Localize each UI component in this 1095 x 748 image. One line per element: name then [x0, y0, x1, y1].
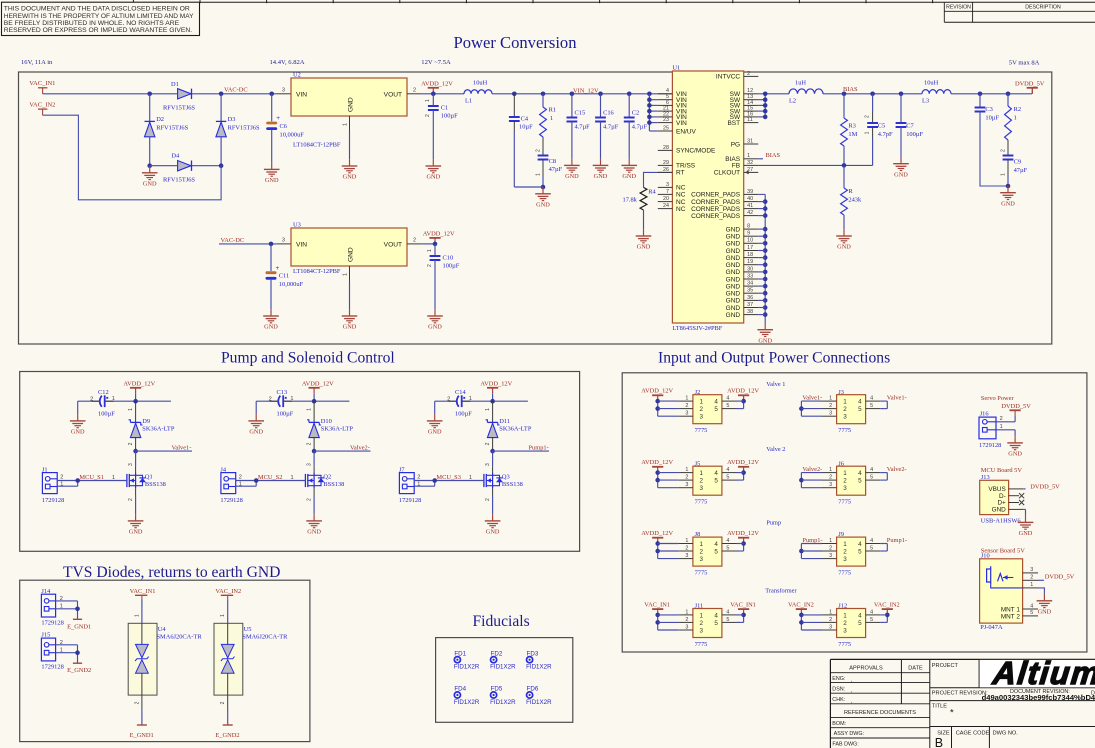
- svg-text:PROJECT REVISION:: PROJECT REVISION:: [932, 691, 988, 697]
- svg-text:L1: L1: [465, 98, 472, 105]
- wire source Q2: [307, 488, 315, 514]
- capacitor C13 polarized: [269, 389, 294, 418]
- svg-text:GND: GND: [343, 174, 357, 181]
- svg-text:J1: J1: [42, 466, 48, 473]
- svg-text:10: 10: [747, 238, 753, 244]
- svg-text:4.7µF: 4.7µF: [603, 123, 619, 130]
- svg-text:100µF: 100µF: [455, 411, 472, 418]
- svg-text:GND: GND: [565, 173, 579, 180]
- svg-text:2: 2: [700, 548, 704, 555]
- svg-text:DVDD_5V: DVDD_5V: [1030, 483, 1060, 490]
- svg-text:GND: GND: [726, 269, 741, 276]
- svg-text:U2: U2: [293, 72, 301, 79]
- svg-text:J5: J5: [695, 460, 701, 467]
- svg-text:3: 3: [1030, 567, 1033, 573]
- svg-text:39: 39: [747, 189, 753, 195]
- svg-text:TITLE: TITLE: [932, 703, 947, 709]
- svg-text:J16: J16: [980, 411, 989, 418]
- svg-text:J3: J3: [838, 389, 844, 396]
- svg-text:1: 1: [700, 399, 704, 406]
- svg-text:BSS138: BSS138: [323, 481, 344, 488]
- svg-text:41: 41: [747, 203, 753, 209]
- svg-text:RFV15TJ6S: RFV15TJ6S: [156, 125, 188, 132]
- tvs section box: [20, 580, 310, 741]
- svg-text:AVDD_12V: AVDD_12V: [727, 530, 759, 537]
- ground Q3: [485, 514, 501, 535]
- node C1 tap: [431, 92, 436, 97]
- svg-text:1729128: 1729128: [41, 620, 63, 627]
- svg-text:4: 4: [870, 396, 873, 402]
- svg-text:3: 3: [700, 414, 704, 421]
- label Sensor Board 5V: [981, 548, 1025, 555]
- svg-text:4: 4: [858, 612, 862, 619]
- connector J14: [41, 588, 63, 627]
- svg-text:2: 2: [128, 498, 134, 501]
- label MCU Board 5V: [981, 467, 1023, 474]
- svg-text:Valve 1: Valve 1: [766, 381, 785, 388]
- ground C9: [1000, 186, 1016, 207]
- svg-text:ENG:: ENG:: [832, 676, 845, 682]
- power AVDD_12V Q1 stage: [123, 381, 155, 402]
- inductor L2: [789, 79, 823, 104]
- wire gnd drop C12: [77, 401, 79, 414]
- svg-text:33: 33: [747, 273, 753, 279]
- svg-text:BSS138: BSS138: [145, 481, 166, 488]
- node C11: [269, 242, 274, 247]
- svg-text:29: 29: [663, 160, 669, 166]
- node BIAS: [842, 86, 858, 96]
- group label Valve 1: [766, 381, 785, 388]
- svg-text:7775: 7775: [838, 641, 851, 648]
- power AVDD_12V u3: [423, 231, 455, 247]
- svg-text:TVS Diodes, returns to earth G: TVS Diodes, returns to earth GND: [63, 564, 280, 581]
- svg-text:4: 4: [858, 399, 862, 406]
- svg-text:CLKOUT: CLKOUT: [714, 170, 740, 177]
- power AVDD_12V Q2 stage: [302, 381, 334, 402]
- svg-text:1: 1: [291, 475, 294, 481]
- svg-text:1uH: 1uH: [795, 79, 806, 86]
- svg-text:1: 1: [700, 541, 704, 548]
- svg-text:GND: GND: [726, 276, 741, 283]
- svg-text:3: 3: [685, 553, 688, 559]
- svg-text:1: 1: [843, 399, 847, 406]
- svg-text:FID1X2R: FID1X2R: [526, 664, 552, 671]
- svg-text:Valve2-: Valve2-: [887, 466, 907, 473]
- svg-text:RT: RT: [676, 170, 685, 177]
- wire L2 to L3: [823, 93, 922, 95]
- svg-text:47µF: 47µF: [549, 166, 563, 173]
- wire D1 to U2: [192, 93, 291, 95]
- svg-text:1: 1: [685, 609, 688, 615]
- wire D4 leads: [150, 165, 221, 167]
- svg-text:VOUT: VOUT: [384, 241, 402, 248]
- net label VIN_12V: [573, 88, 599, 95]
- ground J16: [1007, 436, 1023, 457]
- resistor R3: [841, 94, 858, 166]
- svg-text:3: 3: [685, 411, 688, 417]
- svg-text:D1: D1: [171, 81, 179, 88]
- wire J14 tie: [56, 601, 80, 619]
- svg-text:2: 2: [425, 114, 431, 117]
- diode D11 schottky: [485, 401, 532, 451]
- disclaimer text box: [2, 2, 200, 35]
- svg-text:INTVCC: INTVCC: [716, 74, 741, 81]
- ground C6: [264, 163, 280, 184]
- capacitor C3: [975, 94, 1008, 186]
- svg-text:17.8k: 17.8k: [623, 197, 638, 204]
- svg-text:C16: C16: [603, 109, 614, 116]
- svg-text:31: 31: [747, 138, 753, 144]
- svg-text:AVDD_12V: AVDD_12V: [423, 231, 455, 238]
- port VAC_IN1 tvs: [130, 588, 156, 600]
- svg-text:D11: D11: [499, 418, 510, 425]
- node C9 gnd: [1006, 184, 1011, 189]
- svg-text:VAC-DC: VAC-DC: [224, 87, 248, 94]
- svg-text:GND: GND: [726, 241, 741, 248]
- capacitor C1: [425, 94, 458, 160]
- svg-text:FID1X2R: FID1X2R: [454, 664, 480, 671]
- svg-text:2: 2: [843, 406, 847, 413]
- svg-text:C15: C15: [575, 109, 586, 116]
- svg-text:D4: D4: [171, 152, 180, 159]
- svg-text:DSN:: DSN:: [832, 686, 845, 692]
- earth E_GND1 port: [67, 619, 91, 630]
- svg-text:5: 5: [714, 620, 718, 627]
- svg-text:MCU_S1: MCU_S1: [79, 474, 104, 481]
- svg-text:4: 4: [714, 470, 718, 477]
- svg-text:MCU_S3: MCU_S3: [436, 474, 461, 481]
- svg-text:E_GND1: E_GND1: [130, 732, 154, 739]
- svg-text:5: 5: [726, 617, 729, 623]
- svg-text:*: *: [950, 707, 954, 718]
- inductor L1: [464, 79, 492, 104]
- svg-text:L3: L3: [922, 98, 929, 105]
- svg-text:J11: J11: [695, 603, 704, 610]
- wire source Q3: [485, 488, 493, 514]
- ground C12: [70, 414, 86, 435]
- annotation 12V 7.5A: [421, 59, 451, 66]
- wire gate Q3: [414, 474, 484, 486]
- svg-text:5: 5: [858, 548, 862, 555]
- svg-text:VAC_IN1: VAC_IN1: [644, 602, 670, 609]
- diode D1: [163, 81, 195, 112]
- svg-text:L2: L2: [789, 98, 796, 105]
- svg-text:APPROVALS: APPROVALS: [849, 666, 883, 672]
- svg-text:MNT 2: MNT 2: [1001, 613, 1021, 620]
- svg-text:C1: C1: [441, 104, 448, 111]
- svg-text:GND: GND: [348, 247, 355, 262]
- svg-text:LT1084CT-12PBF: LT1084CT-12PBF: [293, 142, 341, 149]
- svg-text:1729128: 1729128: [220, 497, 242, 504]
- ground C8: [535, 187, 551, 208]
- svg-text:D3: D3: [228, 116, 236, 123]
- svg-text:VAC_IN1: VAC_IN1: [130, 588, 156, 595]
- svg-text:1: 1: [1014, 115, 1017, 122]
- regulator U2 LT1084: [282, 72, 416, 149]
- svg-text:Valve1-: Valve1-: [172, 444, 192, 451]
- svg-text:1: 1: [685, 467, 688, 473]
- svg-text:Q3: Q3: [502, 473, 510, 480]
- svg-text:VAC_IN2: VAC_IN2: [29, 102, 55, 109]
- svg-text:BST: BST: [727, 120, 740, 127]
- wire 12V rail Q3: [435, 399, 528, 404]
- svg-text:VAC_IN1: VAC_IN1: [730, 602, 756, 609]
- svg-text:C5: C5: [878, 123, 885, 130]
- power AVDD_12V u2: [421, 81, 453, 94]
- ground Q1: [128, 514, 144, 535]
- annotation 16V 11A in: [21, 59, 53, 66]
- svg-text:CHK:: CHK:: [832, 697, 845, 703]
- wire J10 gnd: [1038, 588, 1044, 594]
- fiducial FD5: [490, 686, 516, 706]
- svg-text:3: 3: [282, 87, 285, 93]
- svg-text:2: 2: [843, 620, 847, 627]
- ground C13: [248, 414, 264, 435]
- svg-text:1: 1: [485, 408, 491, 411]
- svg-text:Power Conversion: Power Conversion: [453, 33, 577, 52]
- net label BIAS pin: [758, 152, 780, 159]
- ground R 243k: [836, 229, 852, 250]
- svg-text:Valve 2: Valve 2: [766, 446, 785, 453]
- svg-text:20: 20: [663, 196, 669, 202]
- connector J6: [799, 460, 907, 505]
- svg-text:5: 5: [870, 617, 873, 623]
- ground U2: [342, 159, 358, 180]
- svg-text:GND: GND: [837, 244, 851, 251]
- svg-text:VIN: VIN: [676, 120, 687, 127]
- svg-text:C14: C14: [455, 389, 466, 396]
- section title IO Connections: [658, 349, 890, 366]
- svg-text:10µF: 10µF: [519, 124, 533, 131]
- resistor R4 17.8k: [623, 172, 673, 229]
- svg-text:J15: J15: [41, 632, 50, 639]
- svg-text:Valve1-: Valve1-: [802, 394, 822, 401]
- svg-text:2: 2: [829, 545, 832, 551]
- connector J11: [644, 602, 756, 648]
- svg-text:1: 1: [843, 541, 847, 548]
- svg-text:+: +: [276, 265, 280, 272]
- svg-text:4.7pF: 4.7pF: [878, 131, 893, 138]
- node C5 top: [870, 92, 875, 97]
- svg-text:1: 1: [425, 99, 431, 102]
- svg-text:BE FREELY DISTRIBUTED IN WHOLE: BE FREELY DISTRIBUTED IN WHOLE. NO RIGHT…: [4, 20, 180, 27]
- io section box: [622, 373, 1087, 652]
- tvs U4 SMA6J20CA: [128, 600, 202, 725]
- svg-text:Pump1-: Pump1-: [887, 537, 907, 544]
- title block project: [932, 663, 1095, 748]
- svg-text:GND: GND: [726, 312, 741, 319]
- node C8 gnd: [514, 185, 545, 190]
- svg-text:37: 37: [747, 302, 753, 308]
- svg-text:BIAS: BIAS: [766, 152, 781, 159]
- net DVDD_5V sensor: [1038, 574, 1075, 581]
- svg-text:GND: GND: [726, 298, 741, 305]
- section title Pump and Solenoid Control: [221, 349, 395, 366]
- svg-text:1: 1: [1000, 173, 1006, 176]
- svg-text:C4: C4: [521, 116, 529, 123]
- wire SW rail: [758, 93, 789, 95]
- svg-text:BSS138: BSS138: [502, 481, 523, 488]
- svg-text:1: 1: [220, 614, 226, 617]
- svg-text:2: 2: [90, 396, 93, 402]
- svg-text:2: 2: [700, 620, 704, 627]
- svg-text:5: 5: [870, 545, 873, 551]
- svg-text:4: 4: [870, 538, 873, 544]
- wire J13 gnd: [1023, 509, 1025, 515]
- svg-text:3: 3: [700, 627, 704, 634]
- connector J10 jack: [980, 553, 1038, 632]
- svg-text:GND: GND: [992, 507, 1007, 514]
- svg-text:FID1X2R: FID1X2R: [526, 699, 552, 706]
- svg-text:3: 3: [843, 556, 847, 563]
- svg-text:3: 3: [685, 624, 688, 630]
- node C6 tap: [269, 92, 274, 97]
- ground J10: [1037, 594, 1053, 615]
- svg-text:100µF: 100µF: [906, 131, 923, 138]
- svg-text:NC: NC: [676, 199, 686, 206]
- svg-text:VAC_IN1: VAC_IN1: [29, 80, 55, 87]
- svg-text:AVDD_12V: AVDD_12V: [727, 388, 759, 395]
- svg-text:GND: GND: [249, 429, 263, 436]
- revision table: [944, 2, 1095, 22]
- wire U2 out: [407, 93, 464, 95]
- svg-text:34: 34: [747, 281, 753, 287]
- svg-text:2: 2: [307, 442, 313, 445]
- svg-text:1: 1: [843, 470, 847, 477]
- wire drain Q1: [128, 451, 136, 473]
- svg-text:10uH: 10uH: [924, 79, 939, 86]
- svg-text:VAC_IN2: VAC_IN2: [874, 602, 900, 609]
- wire SW bus: [758, 92, 767, 120]
- svg-text:PJ-047A: PJ-047A: [980, 624, 1003, 631]
- svg-text:1: 1: [290, 396, 293, 402]
- node D3-D4: [219, 163, 224, 168]
- svg-text:GND: GND: [637, 244, 651, 251]
- net Valve1-: [133, 444, 192, 453]
- svg-text:3: 3: [829, 482, 832, 488]
- svg-text:GND: GND: [594, 173, 608, 180]
- svg-text:24: 24: [663, 203, 669, 209]
- svg-text:5: 5: [1030, 610, 1033, 616]
- connector J8: [641, 530, 759, 576]
- diode D2: [145, 116, 189, 137]
- svg-text:RFV15TJ6S: RFV15TJ6S: [163, 105, 195, 112]
- svg-text:GND: GND: [894, 171, 908, 178]
- svg-text:1: 1: [843, 612, 847, 619]
- svg-text:3: 3: [128, 463, 134, 466]
- wire gnd drop C14: [434, 401, 436, 414]
- svg-text:10,000uF: 10,000uF: [280, 131, 305, 138]
- svg-text:1: 1: [700, 470, 704, 477]
- svg-text:EN/UV: EN/UV: [676, 128, 697, 135]
- capacitor C2: [624, 94, 648, 159]
- svg-text:DVDD_5V: DVDD_5V: [1045, 574, 1075, 581]
- svg-text:3: 3: [829, 411, 832, 417]
- svg-text:VAC-DC: VAC-DC: [221, 237, 245, 244]
- svg-text:FID1X2R: FID1X2R: [490, 699, 516, 706]
- svg-text:4: 4: [858, 470, 862, 477]
- svg-text:3: 3: [829, 553, 832, 559]
- svg-text:LT8645SJV-2#PBF: LT8645SJV-2#PBF: [672, 325, 722, 332]
- wire VAC_IN2 return: [43, 115, 222, 200]
- svg-text:1: 1: [829, 538, 832, 544]
- svg-text:3: 3: [843, 627, 847, 634]
- svg-text:SK36A-LTP: SK36A-LTP: [321, 426, 354, 433]
- wire gate Q2: [236, 474, 306, 486]
- svg-text:5: 5: [726, 475, 729, 481]
- svg-text:J14: J14: [41, 588, 51, 595]
- svg-text:1: 1: [1030, 582, 1033, 588]
- svg-text:Valve2-: Valve2-: [802, 466, 822, 473]
- svg-text:4: 4: [714, 612, 718, 619]
- svg-text:2: 2: [417, 475, 420, 481]
- svg-text:2: 2: [1000, 149, 1006, 152]
- svg-text:C8: C8: [549, 158, 556, 165]
- svg-text:U3: U3: [293, 222, 301, 229]
- svg-text:BOM:: BOM:: [832, 721, 846, 727]
- svg-text:47µF: 47µF: [1014, 167, 1028, 174]
- svg-text:GND: GND: [307, 529, 321, 536]
- svg-text:GND: GND: [726, 305, 741, 312]
- svg-text:GND: GND: [726, 255, 741, 262]
- svg-text:3: 3: [700, 556, 704, 563]
- svg-text:GND: GND: [1001, 200, 1015, 207]
- annotation 14.4V 6.82A: [270, 59, 305, 66]
- svg-text:4: 4: [726, 538, 729, 544]
- svg-text:4: 4: [870, 609, 873, 615]
- connector J1: [42, 466, 64, 503]
- svg-text:5: 5: [726, 403, 729, 409]
- svg-text:RFV15TJ6S: RFV15TJ6S: [163, 176, 195, 183]
- svg-text:AVDD_12V: AVDD_12V: [641, 388, 673, 395]
- wire source Q1: [128, 488, 136, 514]
- wire J15 tie: [56, 645, 80, 663]
- section title Power Conversion: [453, 33, 577, 52]
- svg-text:19: 19: [747, 259, 753, 265]
- svg-text:C13: C13: [277, 389, 288, 396]
- svg-text:C12: C12: [98, 389, 109, 396]
- svg-text:+: +: [276, 115, 280, 122]
- section title TVS: [63, 564, 280, 581]
- svg-text:3: 3: [485, 463, 491, 466]
- svg-text:2: 2: [535, 149, 541, 152]
- altium logo cell: [980, 660, 1095, 687]
- altium logo: [990, 655, 1095, 691]
- ground C14: [427, 414, 443, 435]
- ground Q2: [306, 514, 322, 535]
- svg-text:CORNER_PADS: CORNER_PADS: [691, 213, 741, 220]
- inductor L3: [922, 79, 951, 104]
- node C3: [978, 92, 983, 97]
- svg-text:2: 2: [413, 237, 416, 243]
- svg-text:HEREWITH IS THE PROPERTY OF AL: HEREWITH IS THE PROPERTY OF ALTIUM LIMIT…: [4, 13, 194, 20]
- svg-text:Input and Output Power Connect: Input and Output Power Connections: [658, 349, 890, 366]
- capacitor C14 polarized: [447, 389, 472, 418]
- connector J3: [799, 389, 907, 434]
- svg-text:GND: GND: [143, 180, 157, 187]
- power AVDD_12V Q3 stage: [480, 381, 512, 402]
- svg-text:1: 1: [112, 396, 115, 402]
- connector J13 USB: [980, 474, 1024, 524]
- port VAC_IN2 tvs: [215, 588, 241, 600]
- ground C16: [593, 159, 609, 180]
- svg-text:3: 3: [666, 182, 669, 188]
- fiducial FD4: [454, 686, 480, 706]
- svg-text:7775: 7775: [838, 499, 851, 506]
- svg-text:GND: GND: [726, 283, 741, 290]
- svg-text:USB-A1HSW6: USB-A1HSW6: [981, 517, 1021, 524]
- svg-text:5: 5: [870, 403, 873, 409]
